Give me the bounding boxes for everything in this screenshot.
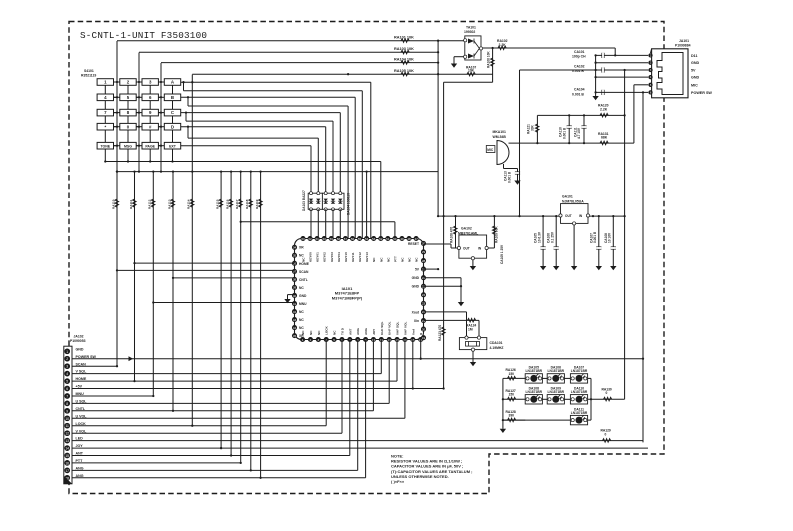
- svg-text:DA104 1SS119: DA104 1SS119: [347, 193, 351, 215]
- svg-text:KEY13: KEY13: [365, 252, 369, 262]
- svg-text:NC: NC: [400, 257, 404, 262]
- svg-text:RA101 10K: RA101 10K: [394, 36, 414, 40]
- svg-text:9: 9: [66, 409, 68, 413]
- svg-text:68K: 68K: [601, 136, 608, 140]
- svg-text:45: 45: [293, 334, 297, 338]
- svg-text:P1090053: P1090053: [70, 339, 86, 343]
- svg-text:ANT: ANT: [348, 329, 352, 335]
- svg-text:DA103 BA227: DA103 BA227: [302, 190, 306, 211]
- svg-text:GND: GND: [691, 61, 700, 65]
- svg-text:KEY10: KEY10: [344, 252, 348, 262]
- svg-text:UHF VOL: UHF VOL: [388, 321, 392, 335]
- svg-text:54: 54: [365, 237, 369, 241]
- svg-text:33K: 33K: [530, 124, 534, 131]
- svg-text:ANG: ANG: [364, 328, 368, 335]
- svg-text:0: 0: [605, 432, 607, 436]
- svg-text:NC: NC: [333, 330, 337, 335]
- svg-text:2.2K: 2.2K: [499, 43, 507, 47]
- svg-text:4.7 10V: 4.7 10V: [577, 127, 581, 139]
- svg-text:RA108 470: RA108 470: [450, 227, 454, 243]
- svg-text:56: 56: [351, 237, 355, 241]
- svg-text:MKA101: MKA101: [493, 130, 506, 134]
- svg-text:GND: GND: [412, 285, 420, 289]
- svg-text:8: 8: [66, 402, 68, 406]
- svg-text:RA123 470: RA123 470: [438, 325, 442, 341]
- svg-text:53: 53: [372, 237, 376, 241]
- svg-text:MNU: MNU: [299, 302, 307, 306]
- svg-text:50: 50: [393, 237, 397, 241]
- svg-text:JOY: JOY: [372, 328, 376, 335]
- svg-text:28: 28: [422, 259, 426, 263]
- svg-text:*: *: [104, 124, 106, 129]
- svg-text:NC: NC: [299, 254, 304, 258]
- svg-text:KEY12: KEY12: [358, 252, 362, 262]
- svg-text:4: 4: [66, 372, 68, 376]
- svg-text:49: 49: [400, 237, 404, 241]
- svg-text:44: 44: [293, 326, 297, 330]
- svg-text:63: 63: [301, 237, 305, 241]
- svg-text:36: 36: [293, 262, 297, 266]
- svg-text:RA106 10K: RA106 10K: [487, 51, 491, 68]
- svg-text:20: 20: [422, 327, 426, 331]
- svg-text:29: 29: [422, 250, 426, 254]
- svg-text:GA102: GA102: [461, 227, 472, 231]
- svg-text:61: 61: [315, 237, 319, 241]
- svg-text:LOCK: LOCK: [325, 325, 329, 335]
- svg-text:KEY02: KEY02: [323, 252, 327, 262]
- svg-text:GA101: GA101: [562, 195, 573, 199]
- svg-text:NC: NC: [372, 257, 376, 262]
- svg-text:OUT: OUT: [463, 247, 470, 251]
- svg-text:LN1871BR: LN1871BR: [571, 411, 588, 415]
- svg-text:390: 390: [509, 414, 515, 418]
- svg-text:KEY11: KEY11: [351, 252, 355, 262]
- svg-text:RESET: RESET: [408, 242, 419, 246]
- svg-text:D: D: [171, 124, 174, 129]
- svg-text:11: 11: [65, 424, 69, 428]
- svg-text:R3521119: R3521119: [81, 74, 96, 78]
- svg-text:0: 0: [606, 391, 608, 395]
- svg-text:42: 42: [293, 310, 297, 314]
- svg-text:48: 48: [407, 237, 411, 241]
- svg-text:CA109 1 25V: CA109 1 25V: [500, 244, 504, 264]
- svg-text:KEY00: KEY00: [309, 252, 313, 262]
- svg-text:1M: 1M: [468, 327, 473, 331]
- svg-text:M37471M8FP(P): M37471M8FP(P): [332, 295, 363, 300]
- svg-text:NC: NC: [299, 326, 304, 330]
- svg-text:VHF VOL: VHF VOL: [403, 321, 407, 335]
- svg-text:LN1871BR: LN1871BR: [571, 390, 588, 394]
- svg-text:POWER SW: POWER SW: [691, 91, 712, 95]
- svg-text:LN1871BR: LN1871BR: [548, 390, 565, 394]
- svg-text:KEY03: KEY03: [330, 252, 334, 262]
- svg-text:KEY01: KEY01: [316, 252, 320, 262]
- svg-text:10K: 10K: [190, 200, 194, 206]
- svg-text:4.19MHZ: 4.19MHZ: [490, 346, 504, 350]
- svg-text:55: 55: [358, 237, 362, 241]
- svg-text:10 16V: 10 16V: [608, 232, 612, 243]
- svg-text:LN1871BR: LN1871BR: [548, 369, 565, 373]
- svg-text:PTT: PTT: [393, 256, 397, 262]
- svg-text:JA101: JA101: [679, 39, 689, 43]
- svg-text:PAGE: PAGE: [145, 144, 155, 148]
- svg-text:43: 43: [293, 318, 297, 322]
- svg-text:TX D: TX D: [340, 327, 344, 335]
- svg-text:D11: D11: [691, 54, 698, 58]
- svg-text:RA105 10K: RA105 10K: [394, 69, 414, 73]
- svg-text:15: 15: [65, 454, 69, 458]
- svg-text:SCAN: SCAN: [299, 270, 309, 274]
- svg-text:LN1871BR: LN1871BR: [571, 369, 588, 373]
- svg-text:35: 35: [293, 254, 297, 258]
- svg-text:0.001 B: 0.001 B: [572, 69, 584, 73]
- svg-text:10 6.3V: 10 6.3V: [537, 231, 541, 243]
- svg-text:7: 7: [66, 394, 68, 398]
- svg-text:1: 1: [66, 350, 68, 354]
- svg-text:B: B: [171, 95, 174, 100]
- svg-text:13: 13: [65, 439, 69, 443]
- svg-text:UHF SQL: UHF SQL: [380, 321, 384, 335]
- svg-text:5: 5: [66, 380, 68, 384]
- svg-text:MIC: MIC: [691, 83, 698, 87]
- svg-text:150: 150: [509, 372, 515, 376]
- svg-text:TONE: TONE: [100, 144, 110, 148]
- svg-text:CNTL: CNTL: [299, 278, 308, 282]
- svg-text:CA102: CA102: [574, 65, 585, 69]
- svg-text:XR: XR: [299, 334, 304, 338]
- svg-text:XR: XR: [299, 246, 304, 250]
- svg-text:0.001 B: 0.001 B: [572, 92, 584, 96]
- svg-text:GND: GND: [299, 294, 307, 298]
- svg-text:MSG: MSG: [124, 144, 132, 148]
- svg-text:150: 150: [509, 393, 515, 397]
- svg-text:OUT: OUT: [565, 214, 572, 218]
- svg-text:60: 60: [323, 237, 327, 241]
- svg-text:0.001 B: 0.001 B: [562, 127, 566, 139]
- svg-text:10K: 10K: [468, 69, 475, 73]
- svg-text:47: 47: [414, 237, 418, 241]
- svg-text:GND: GND: [412, 276, 420, 280]
- svg-text:34: 34: [293, 246, 297, 250]
- svg-text:Xin: Xin: [414, 319, 419, 323]
- svg-text:10K: 10K: [115, 200, 119, 206]
- svg-text:17: 17: [65, 469, 69, 473]
- svg-text:TA101: TA101: [466, 26, 476, 30]
- svg-text:NC: NC: [379, 257, 383, 262]
- svg-text:57: 57: [344, 237, 348, 241]
- svg-text:CA104: CA104: [574, 88, 585, 92]
- svg-text:23: 23: [422, 302, 426, 306]
- svg-text:MIC: MIC: [487, 148, 494, 152]
- svg-text:199302: 199302: [464, 30, 475, 34]
- svg-text:0.001 B: 0.001 B: [508, 171, 512, 183]
- svg-text:NC: NC: [299, 286, 304, 290]
- svg-text:ANG: ANG: [356, 328, 360, 335]
- svg-text:HOME: HOME: [299, 262, 310, 266]
- svg-text:( )×F××: ( )×F××: [391, 479, 405, 484]
- svg-text:0.1 25V: 0.1 25V: [551, 231, 555, 243]
- svg-text:16: 16: [65, 461, 69, 465]
- svg-text:NJM78L05UA: NJM78L05UA: [562, 199, 584, 203]
- svg-text:3: 3: [66, 365, 68, 369]
- svg-text:NC: NC: [299, 318, 304, 322]
- svg-text:14: 14: [65, 447, 69, 451]
- svg-text:LN1871BR: LN1871BR: [526, 369, 543, 373]
- svg-text:NC: NC: [317, 330, 321, 335]
- svg-text:59: 59: [330, 237, 334, 241]
- svg-text:2: 2: [66, 357, 68, 361]
- svg-text:6: 6: [66, 387, 68, 391]
- svg-text:VHF SQL: VHF SQL: [396, 321, 400, 335]
- svg-text:GND: GND: [76, 347, 84, 351]
- svg-text:Xout: Xout: [412, 310, 420, 314]
- svg-text:NC: NC: [299, 310, 304, 314]
- svg-text:GND: GND: [691, 76, 700, 80]
- svg-text:2.2K: 2.2K: [600, 107, 608, 111]
- svg-text:S-CNTL-1-UNIT F3503100: S-CNTL-1-UNIT F3503100: [80, 30, 207, 41]
- svg-text:RA104 10K: RA104 10K: [394, 57, 414, 61]
- svg-text:S4101: S4101: [84, 69, 94, 73]
- svg-text:NC: NC: [415, 257, 419, 262]
- svg-text:WM-54B: WM-54B: [493, 135, 507, 139]
- svg-text:39: 39: [293, 286, 297, 290]
- svg-text:24: 24: [422, 293, 426, 297]
- svg-text:P1099884: P1099884: [675, 44, 691, 48]
- svg-text:51: 51: [386, 237, 390, 241]
- svg-text:EXT: EXT: [169, 144, 177, 148]
- svg-text:10: 10: [65, 417, 69, 421]
- svg-text:CDA101: CDA101: [490, 341, 503, 345]
- svg-text:58: 58: [337, 237, 341, 241]
- svg-text:CA101: CA101: [574, 50, 585, 54]
- svg-text:NC: NC: [386, 257, 390, 262]
- svg-text:NC: NC: [408, 257, 412, 262]
- svg-text:0.001 B: 0.001 B: [593, 231, 597, 243]
- svg-text:RA103 10K: RA103 10K: [394, 47, 414, 51]
- svg-text:100p CH: 100p CH: [572, 55, 586, 59]
- svg-text:RA109 56K: RA109 56K: [495, 226, 499, 243]
- svg-text:JA102: JA102: [74, 335, 84, 339]
- svg-text:KEY04: KEY04: [337, 252, 341, 262]
- svg-text:52: 52: [379, 237, 383, 241]
- svg-text:12: 12: [65, 432, 69, 436]
- svg-text:NC: NC: [309, 330, 313, 335]
- svg-text:62: 62: [308, 237, 312, 241]
- svg-text:5V: 5V: [691, 69, 696, 73]
- svg-text:19: 19: [422, 336, 426, 340]
- svg-text:LN1871BR: LN1871BR: [526, 390, 543, 394]
- svg-text:Vref: Vref: [411, 328, 415, 335]
